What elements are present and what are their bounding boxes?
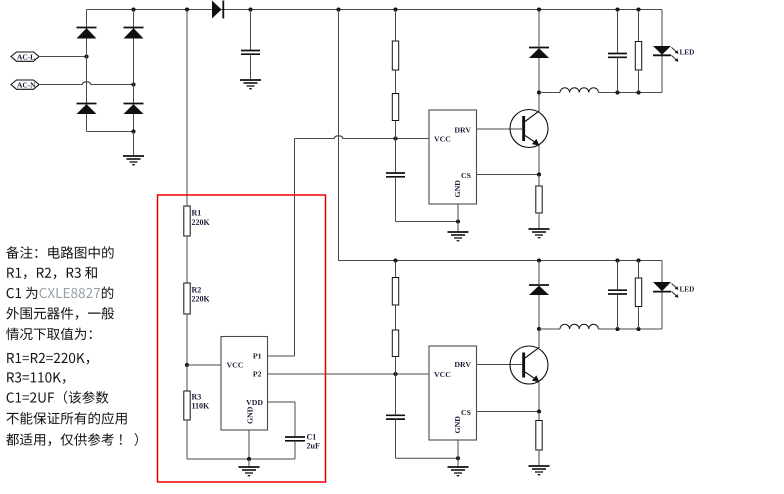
wire resistor chain 2 top: [395, 261, 397, 278]
connector AC-N: [11, 80, 39, 90]
pin VDD U1: [246, 398, 295, 407]
wire LED1 branch: [661, 10, 663, 93]
svg-text:GND: GND: [453, 416, 462, 434]
wire out cap 2 drop: [617, 261, 619, 290]
wire out cap 1 drop: [617, 10, 619, 54]
junction rail-freewheel diode D5: [537, 7, 541, 11]
wire CS1 to R6: [538, 175, 540, 187]
freewheel diode D5: [529, 48, 549, 59]
svg-text:CS: CS: [461, 171, 471, 180]
junction rail-VCC resistor chain: [393, 7, 397, 11]
series diode D0: [212, 1, 223, 19]
pin P2 U1: [253, 370, 429, 379]
junction out2 cap: [615, 327, 619, 331]
wire out cap 1 bottom: [617, 57, 619, 92]
pin VCC U1: [187, 361, 244, 370]
svg-text:DRV: DRV: [454, 125, 471, 134]
wire Q2 emitter: [538, 382, 540, 412]
op-amp U1 CXLE8827 box: [221, 337, 268, 431]
pin CS U3: [461, 408, 539, 417]
bridge diode D3: [77, 104, 97, 115]
resistor R11: [635, 278, 641, 307]
junction out1 cap: [615, 90, 619, 94]
junction rail2-cap: [615, 258, 619, 262]
wire VCC node to R3: [186, 365, 188, 391]
ground driver1: [448, 232, 469, 241]
junction VCC1 node: [393, 136, 397, 140]
junction rail-bulk cap: [248, 7, 252, 11]
wire Q1 collector: [538, 93, 540, 111]
wire AC-N to bridge with hop: [39, 82, 134, 85]
svg-text:CS: CS: [461, 408, 471, 417]
wire bridge col1: [86, 10, 88, 132]
wire IC ground stub: [248, 459, 250, 467]
junction out2 res: [636, 327, 640, 331]
svg-text:LED: LED: [680, 286, 695, 294]
wire switch row 2: [539, 324, 662, 329]
svg-text:AC-N: AC-N: [17, 81, 36, 90]
pin VCC U2: [434, 134, 451, 143]
svg-text:VCC: VCC: [227, 361, 244, 370]
wire bulk cap drop: [250, 10, 252, 51]
junction rail2-res: [636, 258, 640, 262]
wire C4 to gnd wire: [396, 419, 459, 458]
wire VCC1 line with hop: [295, 136, 430, 139]
svg-text:C1: C1: [307, 433, 317, 442]
junction bridge bottom: [131, 129, 135, 133]
resistor R9: [392, 330, 398, 357]
svg-text:VCC: VCC: [434, 370, 451, 379]
pin GND U3: [453, 416, 462, 467]
junction rail-rail2 feed: [336, 7, 340, 11]
wire out cap 2 bottom: [617, 294, 619, 329]
resistor R8: [392, 278, 398, 306]
wire bulk cap to ground: [250, 54, 252, 80]
wire VDD to C1: [294, 402, 296, 437]
junction out1 res: [636, 90, 640, 94]
wire R2 to VCC node: [186, 314, 188, 365]
wire P1 riser: [294, 139, 296, 357]
wire R3 to bottom rail: [186, 420, 188, 459]
wire R1 to R2: [186, 236, 188, 283]
wire out res 1 bottom: [638, 70, 640, 93]
wire bridge bottom: [87, 131, 134, 133]
junction driver2 gnd node: [456, 456, 460, 460]
ground bulk cap: [240, 80, 261, 89]
svg-text:GND: GND: [245, 406, 254, 424]
capacitor C5: [608, 290, 627, 294]
svg-text:VCC: VCC: [434, 134, 451, 143]
resistor R2: [184, 283, 211, 314]
wire CS2 to R10: [538, 412, 540, 421]
junction rail-R1 column: [185, 7, 189, 11]
wire top rail: [87, 9, 663, 11]
pin CS U2: [461, 171, 539, 180]
wire Q2 collector: [538, 329, 540, 348]
wire D5 to switch node 1: [538, 58, 540, 93]
wire C1 to bottom rail: [294, 441, 296, 459]
svg-text:220K: 220K: [192, 218, 211, 227]
transistor Q2: [510, 346, 548, 384]
wire rail2 feed: [338, 10, 340, 261]
wire rail to D5: [538, 10, 540, 48]
ground R10: [529, 466, 550, 475]
resistor R7: [635, 42, 641, 71]
wire R4-R5: [395, 70, 397, 94]
resistor R6: [536, 186, 542, 213]
capacitor bulk: [241, 51, 260, 55]
wire LED2 branch: [661, 261, 663, 330]
ground IC: [239, 467, 260, 476]
resistor R3: [184, 391, 210, 420]
junction rail-bridge col2: [131, 7, 135, 11]
junction driver1 gnd node: [456, 219, 460, 223]
wire bridge col2: [133, 10, 135, 132]
junction rail-output cap C2: [615, 7, 619, 11]
wire R8-R9: [395, 305, 397, 330]
ground R6: [529, 229, 550, 238]
wire resistor chain 1 top: [395, 10, 397, 42]
junction CS1 node: [537, 172, 541, 176]
junction rail2-D6: [537, 258, 541, 262]
driver U3 box: [429, 346, 477, 440]
pin VCC U3: [434, 370, 451, 379]
junction CS2 node: [537, 409, 541, 413]
svg-text:DRV: DRV: [454, 360, 471, 369]
capacitor C2: [608, 54, 627, 58]
capacitor C4: [386, 415, 405, 419]
junction rail-output resistor R7: [636, 7, 640, 11]
wire R5 to VCC1: [395, 121, 397, 139]
pin GND U1: [245, 406, 254, 459]
resistor R5: [392, 94, 398, 121]
transistor Q1: [510, 110, 548, 148]
svg-text:R1: R1: [192, 209, 202, 218]
wire AC-L to bridge: [39, 56, 87, 58]
junction AC-N node: [131, 82, 135, 86]
svg-text:R2: R2: [192, 285, 202, 294]
wire out res 2 top: [638, 261, 640, 279]
pin DRV U2: [454, 125, 522, 134]
ground bridge: [123, 156, 144, 165]
LED D8: [653, 282, 694, 298]
svg-text:P1: P1: [253, 352, 262, 361]
svg-text:LED: LED: [680, 48, 695, 56]
wire D6 to switch node 2: [538, 295, 540, 329]
wire Q1 emitter: [538, 146, 540, 175]
capacitor C1: [285, 433, 320, 451]
junction rail2-chain: [393, 258, 397, 262]
wire R10 to ground: [538, 450, 540, 466]
wire bridge to ground: [133, 132, 135, 157]
svg-text:110K: 110K: [192, 402, 211, 411]
svg-text:P2: P2: [253, 370, 262, 379]
ground driver2: [448, 467, 469, 476]
resistor R4: [392, 41, 398, 70]
wire switch row 1: [539, 88, 662, 93]
pin DRV U3: [454, 360, 522, 369]
wire VCC1 to cap C3: [395, 139, 397, 173]
LED D7: [653, 46, 694, 62]
wire rail to R1: [186, 10, 188, 207]
note text annotation: [6, 246, 138, 446]
junction VCC node: [185, 363, 189, 367]
wire IC bottom rail: [187, 458, 295, 460]
bridge diode D2: [124, 28, 144, 39]
wire C3 to gnd wire: [396, 177, 459, 222]
pin P1 U1: [253, 352, 295, 361]
svg-text:R3: R3: [192, 392, 202, 401]
svg-text:220K: 220K: [192, 295, 211, 304]
svg-text:VDD: VDD: [246, 398, 263, 407]
highlight box (red annotation): [158, 195, 326, 482]
junction AC-L node: [84, 54, 88, 58]
junction P2-VCC2 node: [393, 372, 397, 376]
wire R9 to VCC2: [395, 357, 397, 375]
pin GND U2: [453, 180, 462, 232]
bridge diode D4: [124, 104, 144, 115]
wire rail 2: [339, 260, 663, 262]
connector AC-L: [11, 52, 39, 62]
wire VCC2 to cap C4: [395, 374, 397, 415]
svg-text:GND: GND: [453, 180, 462, 198]
wire out res 1 top: [638, 10, 640, 42]
bridge diode D1: [77, 28, 97, 39]
svg-text:AC-L: AC-L: [17, 53, 35, 62]
svg-text:2uF: 2uF: [307, 442, 320, 451]
wire R6 to ground: [538, 213, 540, 229]
junction switch node 1: [537, 90, 541, 94]
wire out res 2 bottom: [638, 307, 640, 330]
resistor R10: [536, 421, 542, 451]
resistor R1: [184, 206, 211, 236]
junction switch node 2: [537, 327, 541, 331]
freewheel diode D6: [529, 285, 549, 295]
capacitor C3: [386, 173, 405, 177]
junction IC ground node: [247, 457, 251, 461]
wire rail2 to D6: [538, 261, 540, 286]
driver U2 box: [429, 110, 477, 204]
